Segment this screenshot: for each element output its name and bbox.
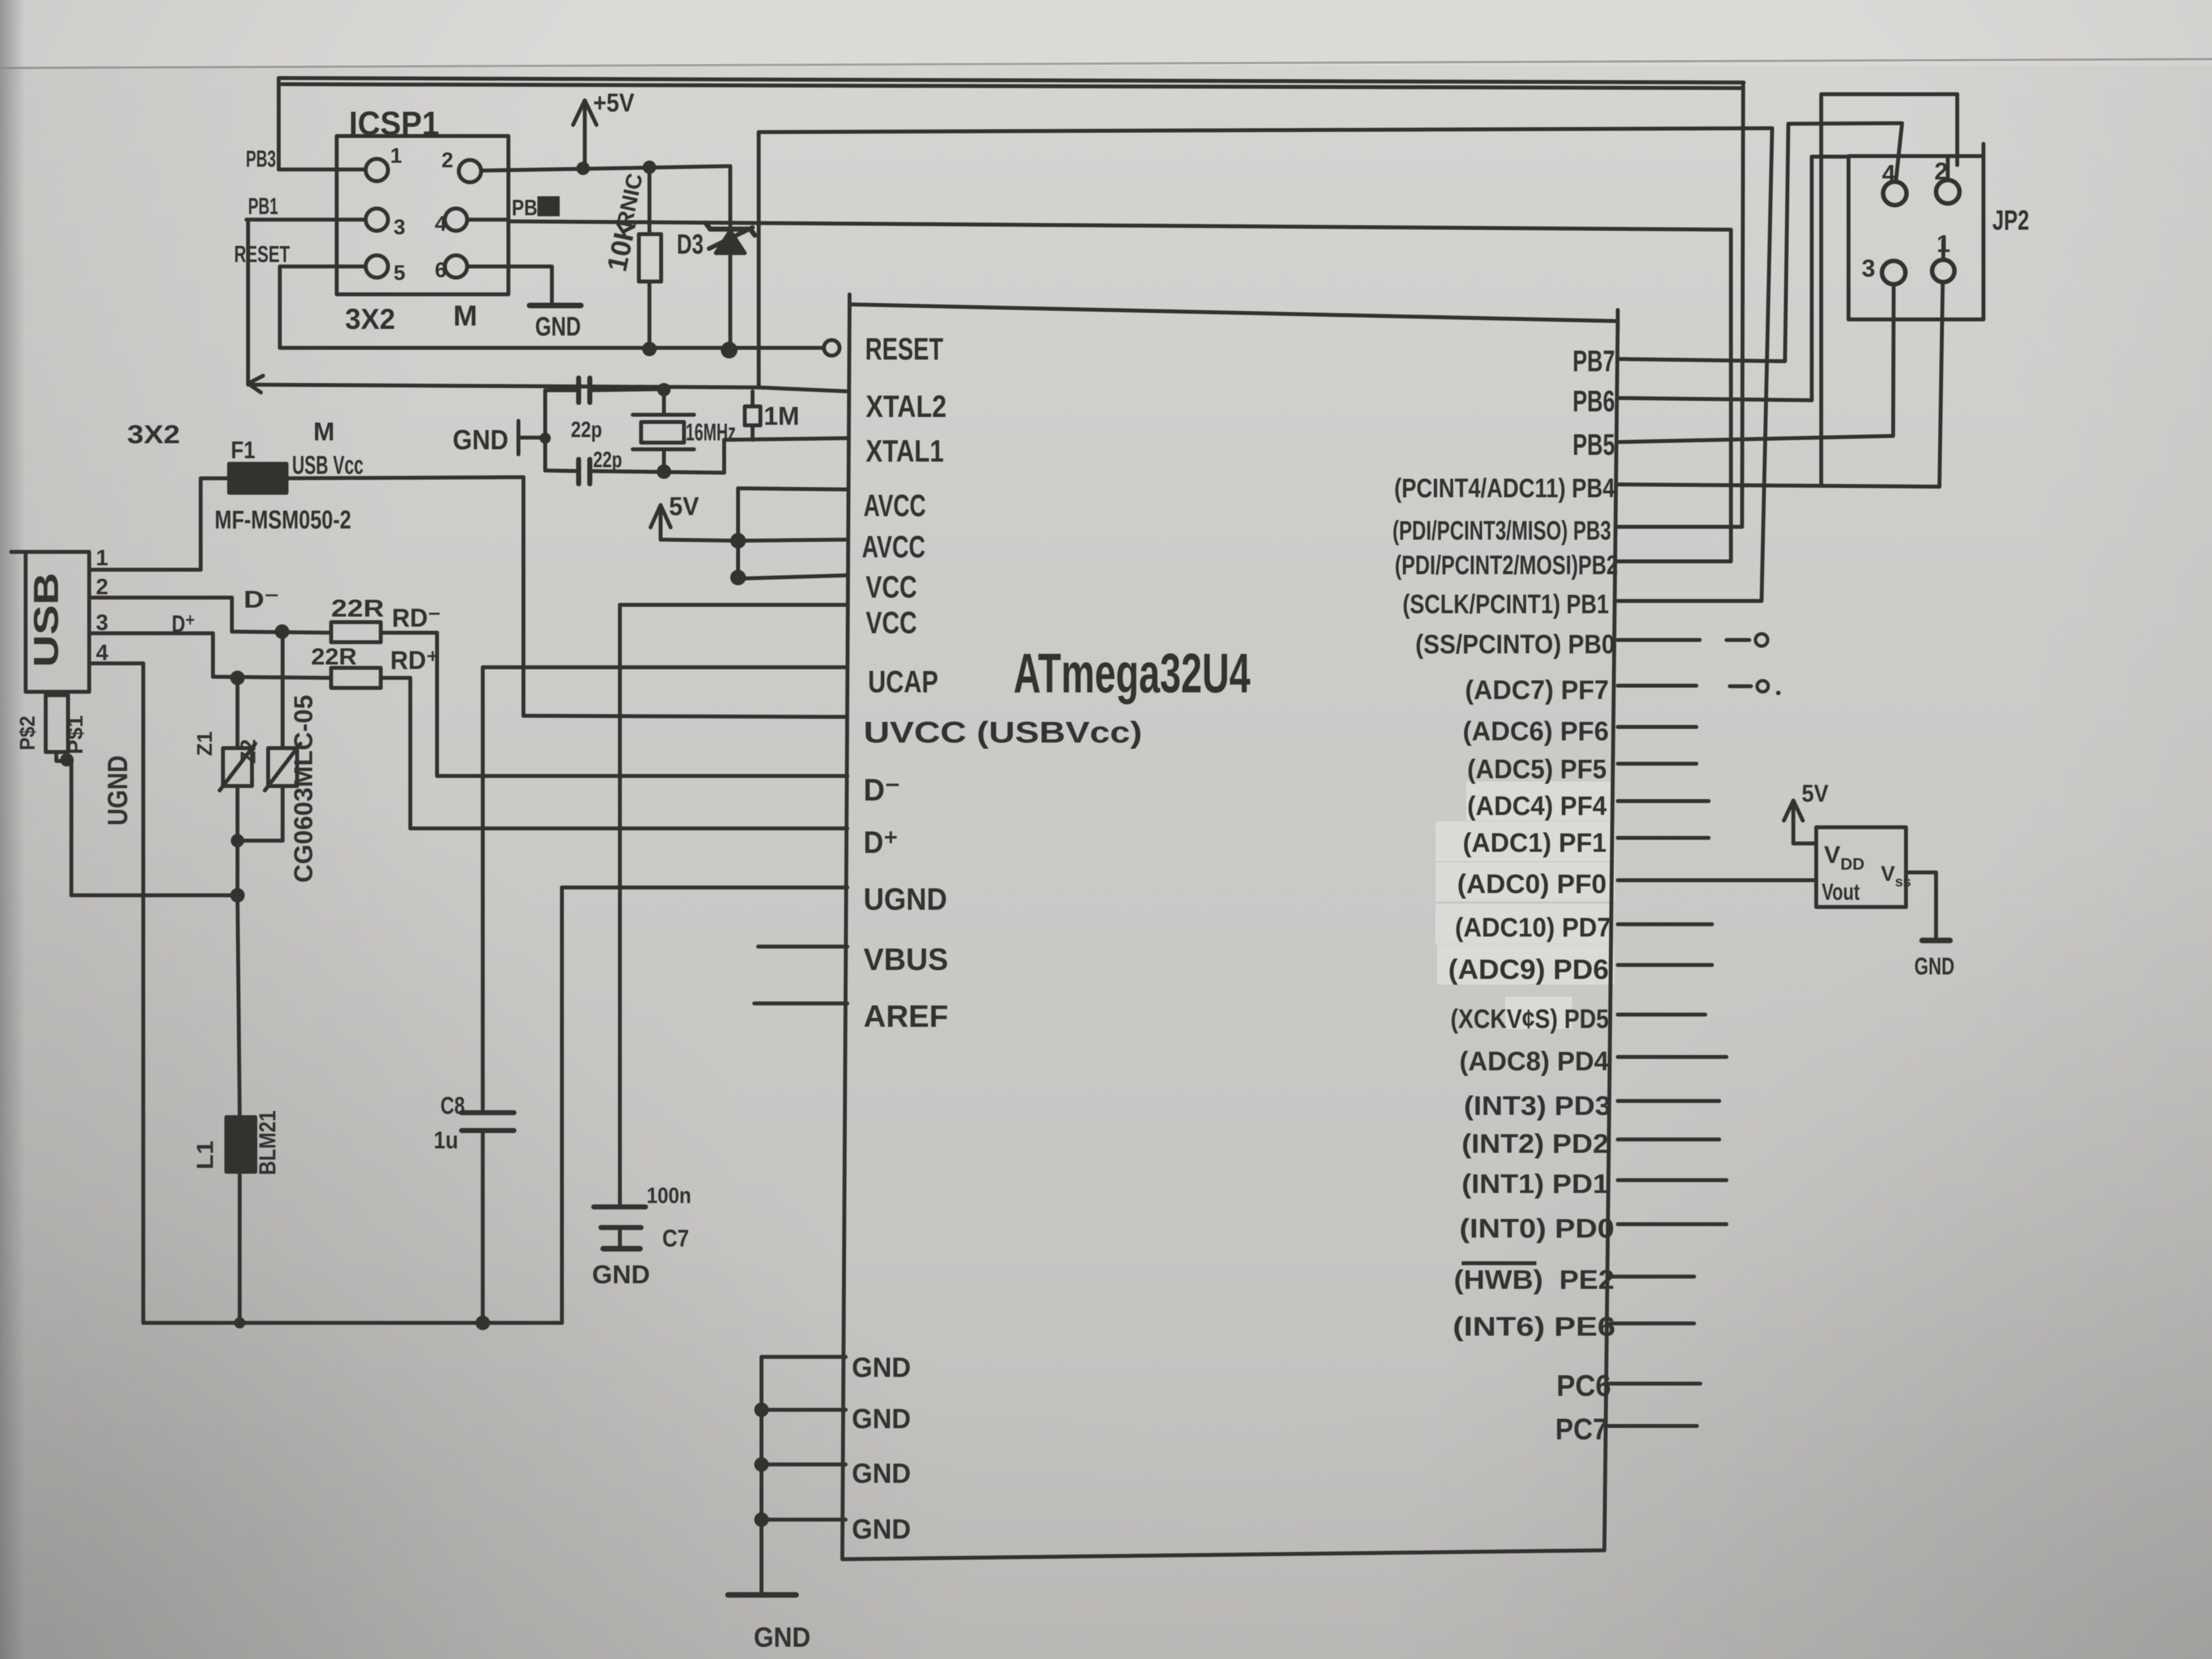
svg-text:M: M (453, 300, 477, 332)
svg-text:22R: 22R (331, 595, 384, 622)
svg-text:D⁺: D⁺ (864, 824, 898, 860)
svg-text:(ADC10) PD7: (ADC10) PD7 (1455, 913, 1611, 943)
svg-text:C8: C8 (440, 1092, 465, 1119)
svg-text:PB: PB (512, 196, 537, 220)
svg-text:RESET: RESET (865, 331, 943, 366)
svg-text:(ADC6) PF6: (ADC6) PF6 (1463, 717, 1609, 746)
svg-text:(INT3) PD3: (INT3) PD3 (1464, 1092, 1611, 1121)
svg-text:5V: 5V (669, 492, 699, 521)
svg-text:UGND: UGND (864, 881, 947, 916)
svg-text:3: 3 (394, 216, 405, 239)
svg-text:XTAL1: XTAL1 (866, 433, 944, 468)
svg-text:3X2: 3X2 (127, 420, 180, 449)
svg-text:22R: 22R (311, 643, 357, 670)
svg-text:3: 3 (1862, 255, 1875, 282)
svg-text:6: 6 (435, 259, 447, 282)
svg-text:AVCC: AVCC (864, 488, 926, 523)
svg-text:1: 1 (96, 546, 108, 570)
svg-text:3X2: 3X2 (345, 303, 395, 336)
svg-text:2: 2 (1934, 158, 1948, 185)
svg-text:PB7: PB7 (1573, 345, 1615, 378)
svg-text:GND: GND (1914, 953, 1954, 980)
svg-text:4: 4 (96, 641, 109, 665)
svg-text:100n: 100n (647, 1183, 691, 1208)
svg-text:USB Vcc: USB Vcc (292, 450, 363, 479)
svg-text:PB3: PB3 (246, 145, 276, 172)
svg-text:2: 2 (96, 575, 108, 599)
svg-text:AVCC: AVCC (862, 529, 925, 564)
svg-text:GND: GND (453, 424, 508, 455)
svg-text:GND: GND (535, 312, 581, 342)
svg-text:(ADC4) PF4: (ADC4) PF4 (1467, 792, 1607, 821)
svg-text:(SCLK/PCINT1) PB1: (SCLK/PCINT1) PB1 (1403, 590, 1609, 619)
svg-text:GND: GND (592, 1260, 650, 1289)
svg-text:VCC: VCC (866, 605, 917, 640)
svg-text:(ADC9) PD6: (ADC9) PD6 (1448, 954, 1609, 985)
svg-text:GND: GND (852, 1514, 911, 1545)
svg-text:(PCINT4/ADC11) PB4: (PCINT4/ADC11) PB4 (1394, 474, 1615, 503)
svg-text:(XCKV¢S) PD5: (XCKV¢S) PD5 (1451, 1005, 1609, 1034)
svg-text:VCC: VCC (866, 569, 917, 604)
svg-text:(INT6) PE6: (INT6) PE6 (1453, 1312, 1616, 1342)
svg-text:1M: 1M (764, 401, 799, 430)
svg-text:(ADC8) PD4: (ADC8) PD4 (1459, 1047, 1609, 1076)
svg-text:P$1: P$1 (64, 715, 88, 754)
svg-text:(PDI/PCINT3/MISO) PB3: (PDI/PCINT3/MISO) PB3 (1393, 516, 1611, 546)
svg-text:RD⁻: RD⁻ (392, 603, 441, 632)
svg-text:GND: GND (754, 1622, 811, 1653)
svg-text:PC7: PC7 (1555, 1413, 1608, 1446)
svg-text:UGND: UGND (102, 755, 133, 826)
svg-text:(ADC7) PF7: (ADC7) PF7 (1465, 676, 1609, 705)
svg-text:(ADC5) PF5: (ADC5) PF5 (1467, 755, 1607, 784)
svg-text:Vout: Vout (1822, 879, 1860, 905)
svg-text:M: M (313, 417, 334, 446)
svg-text:16MHz: 16MHz (686, 419, 736, 446)
svg-text:CG0603MLC-05: CG0603MLC-05 (289, 695, 318, 883)
svg-text:VBUS: VBUS (864, 942, 948, 977)
svg-text:D⁻: D⁻ (864, 772, 900, 807)
svg-text:Z2: Z2 (237, 739, 260, 764)
svg-text:1: 1 (390, 144, 402, 168)
svg-text:RESET: RESET (234, 241, 290, 267)
svg-text:PB6: PB6 (1573, 385, 1615, 418)
svg-text:L1: L1 (192, 1141, 218, 1170)
svg-text:P$2: P$2 (16, 716, 40, 750)
svg-text:D⁺: D⁺ (172, 610, 195, 638)
svg-text:PB1: PB1 (248, 193, 278, 219)
svg-text:D⁻: D⁻ (244, 586, 279, 613)
svg-text:(HWB) PE2: (HWB) PE2 (1454, 1265, 1614, 1295)
svg-text:4: 4 (1882, 160, 1896, 187)
svg-text:PC6: PC6 (1556, 1369, 1611, 1403)
svg-text:ATmega32U4: ATmega32U4 (1013, 642, 1250, 705)
svg-text:PB5: PB5 (1573, 428, 1615, 462)
svg-text:1: 1 (1937, 230, 1950, 258)
svg-text:GND: GND (852, 1352, 911, 1383)
svg-text:(INT1) PD1: (INT1) PD1 (1462, 1170, 1609, 1199)
svg-text:(ADC0) PF0: (ADC0) PF0 (1457, 870, 1607, 899)
svg-text:UVCC (USBVcc): UVCC (USBVcc) (864, 716, 1142, 749)
svg-text:XTAL2: XTAL2 (866, 389, 947, 424)
svg-text:5V: 5V (1802, 780, 1829, 807)
svg-text:+5V: +5V (593, 88, 634, 117)
svg-text:F1: F1 (231, 436, 255, 464)
svg-text:AREF: AREF (864, 998, 948, 1034)
svg-text:MF-MSM050-2: MF-MSM050-2 (215, 505, 351, 534)
svg-text:4: 4 (435, 212, 447, 236)
svg-text:UCAP: UCAP (868, 664, 938, 699)
svg-text:GND: GND (852, 1458, 911, 1489)
svg-text:(ADC1) PF1: (ADC1) PF1 (1463, 828, 1607, 858)
svg-text:JP2: JP2 (1992, 205, 2029, 236)
svg-text:C7: C7 (662, 1225, 689, 1252)
svg-text:1u: 1u (434, 1127, 458, 1154)
svg-text:22p: 22p (593, 448, 622, 472)
svg-text:ICSP1: ICSP1 (349, 105, 439, 142)
svg-text:(SS/PCINTO) PB0: (SS/PCINTO) PB0 (1415, 630, 1615, 659)
svg-text:USB: USB (27, 573, 66, 667)
svg-text:RD⁺: RD⁺ (390, 646, 439, 675)
svg-text:(PDI/PCINT2/MOSI)PB2: (PDI/PCINT2/MOSI)PB2 (1395, 551, 1618, 580)
svg-text:(INT0) PD0: (INT0) PD0 (1459, 1214, 1614, 1244)
svg-text:3: 3 (96, 610, 108, 635)
svg-text:GND: GND (852, 1403, 911, 1434)
svg-text:Z1: Z1 (193, 731, 217, 756)
svg-text:2: 2 (442, 149, 453, 172)
svg-text:D3: D3 (677, 229, 704, 260)
svg-text:5: 5 (394, 261, 405, 285)
svg-text:(INT2) PD2: (INT2) PD2 (1462, 1129, 1609, 1159)
svg-text:22p: 22p (571, 418, 602, 442)
svg-text:BLM21: BLM21 (254, 1110, 280, 1175)
